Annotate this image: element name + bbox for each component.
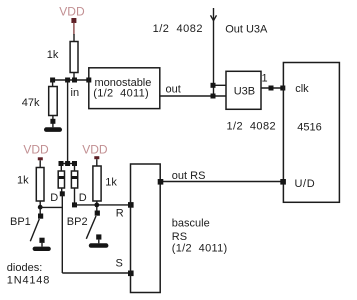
svg-text:1/2 4082: 1/2 4082 bbox=[153, 23, 203, 35]
svg-text:1: 1 bbox=[262, 73, 268, 85]
svg-text:D: D bbox=[79, 192, 87, 204]
wire out RS to U/D bbox=[160, 181, 283, 183]
junction U3B inputs bbox=[211, 83, 216, 99]
switch BP1 bbox=[30, 209, 44, 247]
junction D1 bottom bbox=[60, 191, 65, 196]
svg-text:out RS: out RS bbox=[172, 170, 206, 182]
junction out RS at bascule bbox=[158, 179, 164, 185]
svg-text:Out U3A: Out U3A bbox=[225, 24, 268, 36]
label diodes: 1N4148 bbox=[7, 262, 50, 286]
junction U3B output bbox=[269, 86, 286, 91]
svg-text:(1/2 4011): (1/2 4011) bbox=[93, 87, 149, 99]
power symbol VDD (BP1) bbox=[23, 142, 49, 160]
svg-text:D: D bbox=[50, 192, 58, 204]
wire arrow input Out U3A vertical bbox=[213, 8, 215, 96]
wire monostable out to U3B bbox=[160, 95, 226, 97]
wire VDD to R1 bbox=[73, 34, 75, 42]
svg-text:clk: clk bbox=[295, 83, 309, 95]
power symbol VDD (BP2) bbox=[82, 142, 108, 159]
svg-text:1k: 1k bbox=[105, 177, 117, 189]
wire R4 to BP1 node bbox=[39, 201, 41, 209]
junction S at bascule bbox=[128, 271, 134, 277]
svg-text:BP2: BP2 bbox=[67, 216, 88, 228]
svg-text:U3B: U3B bbox=[234, 86, 255, 98]
arrowhead bbox=[211, 15, 217, 20]
power symbol VDD (top) bbox=[59, 5, 85, 35]
svg-text:VDD: VDD bbox=[82, 142, 108, 156]
ground (BP2) bbox=[89, 243, 109, 248]
svg-text:in: in bbox=[71, 87, 80, 99]
resistor R3 47k bbox=[22, 87, 57, 116]
svg-text:U/D: U/D bbox=[295, 178, 316, 190]
diode D2 bbox=[71, 164, 77, 205]
svg-text:1N4148: 1N4148 bbox=[7, 274, 50, 286]
svg-text:1k: 1k bbox=[17, 175, 29, 187]
label bascule RS bbox=[172, 217, 228, 254]
wire VDD to R4 bbox=[39, 160, 41, 167]
svg-text:1k: 1k bbox=[47, 49, 59, 61]
wire BP1 node to D1 line bbox=[40, 206, 62, 208]
svg-text:VDD: VDD bbox=[23, 142, 49, 156]
svg-text:RS: RS bbox=[172, 231, 187, 243]
wire to 47k bbox=[52, 80, 54, 87]
diode D1 bbox=[58, 164, 64, 194]
junction R at bascule bbox=[128, 202, 134, 208]
wire R5 to R node bbox=[96, 201, 98, 207]
ground (BP1) bbox=[33, 247, 51, 251]
svg-text:VDD: VDD bbox=[59, 5, 85, 19]
svg-text:(1/2 4011): (1/2 4011) bbox=[172, 242, 228, 254]
svg-text:diodes:: diodes: bbox=[7, 262, 42, 274]
svg-text:R: R bbox=[116, 208, 124, 220]
svg-text:47k: 47k bbox=[22, 97, 40, 109]
switch BP2 bbox=[86, 207, 101, 243]
ground (47k) bbox=[44, 127, 62, 132]
wire R line to bascule bbox=[75, 204, 131, 206]
svg-text:BP1: BP1 bbox=[10, 216, 31, 228]
junction node row bbox=[50, 78, 91, 83]
junction above ground bbox=[50, 119, 55, 124]
resistor R4 1k (BP1 pull-up) bbox=[17, 168, 44, 202]
resistor R5 1k (BP2 pull-up) bbox=[93, 166, 118, 201]
wire S horizontal bbox=[62, 272, 130, 274]
gate U3B box bbox=[226, 71, 261, 109]
svg-text:1/2 4082: 1/2 4082 bbox=[227, 121, 276, 133]
wire node row to monostable input bbox=[53, 79, 89, 81]
node BP1 (dot) bbox=[38, 205, 43, 210]
svg-text:S: S bbox=[116, 258, 123, 270]
junction U/D at 4516 bbox=[280, 179, 286, 185]
resistor R1 1k (top pull-up) bbox=[47, 42, 78, 73]
gate U monostable box bbox=[89, 68, 160, 109]
node R (dot) bbox=[94, 203, 99, 208]
gate bascule RS box bbox=[131, 164, 161, 293]
wire VDD to R5 bbox=[96, 159, 98, 166]
wire upper U3B input bbox=[214, 84, 227, 86]
svg-text:bascule: bascule bbox=[172, 217, 210, 229]
wire diode top row bbox=[61, 163, 75, 165]
wire U3B out to clk bbox=[261, 87, 283, 89]
wire 47k to ground bbox=[52, 116, 54, 128]
svg-text:4516: 4516 bbox=[297, 122, 321, 134]
junction diode row bbox=[59, 161, 78, 166]
wire D1/S vertical bbox=[61, 194, 63, 274]
svg-text:out: out bbox=[166, 84, 181, 96]
counter IC 4516 box bbox=[283, 63, 339, 203]
junction D2 bottom bbox=[72, 202, 77, 207]
wire mid vertical to diodes bbox=[67, 80, 69, 164]
wire R1 bottom to input node bbox=[73, 73, 75, 81]
